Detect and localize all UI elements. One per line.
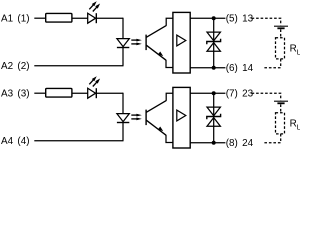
TVS bottom diode bbox=[207, 43, 220, 52]
amplifier triangle bbox=[177, 35, 186, 46]
TVS top diode bbox=[207, 107, 220, 116]
battery short bar bbox=[277, 102, 284, 104]
resistor R1 bbox=[46, 13, 72, 22]
output wire top bbox=[190, 92, 225, 94]
wire A1 to resistor bbox=[34, 17, 45, 19]
output wire bottom bbox=[190, 142, 225, 144]
light arrow 2 bbox=[131, 118, 142, 121]
channel 1 bbox=[1, 1, 301, 74]
battery short bar bbox=[277, 27, 284, 29]
wire A4 bbox=[34, 140, 123, 142]
phototransistor collector wire bbox=[146, 101, 166, 113]
light arrow 1 bbox=[131, 114, 142, 117]
svg-text:RL: RL bbox=[290, 44, 300, 57]
wire down to opto LED bbox=[122, 93, 124, 114]
LED D1 emission arrow 1 bbox=[89, 1, 96, 9]
LED D1 triangle bbox=[88, 13, 96, 23]
svg-text:RL: RL bbox=[290, 119, 300, 132]
LED D2 emission arrow 1 bbox=[89, 76, 96, 84]
output wire top bbox=[190, 17, 225, 19]
resistor R2 bbox=[46, 88, 72, 97]
optocoupler LED triangle bbox=[117, 114, 129, 122]
dashed wire battery to load bbox=[280, 29, 282, 37]
optocoupler LED triangle bbox=[117, 39, 129, 47]
load resistor RL bbox=[276, 113, 285, 134]
output wire bottom bbox=[190, 67, 225, 69]
battery long bar bbox=[274, 100, 288, 102]
junction top bbox=[212, 91, 216, 95]
wire A2 bbox=[34, 65, 123, 67]
channel 2 bbox=[1, 76, 301, 149]
wire resistor to LED bbox=[72, 92, 88, 94]
TVS zener bar bbox=[207, 114, 221, 119]
svg-text:(5) 13: (5) 13 bbox=[226, 13, 254, 24]
wire LED to corner bbox=[96, 17, 123, 19]
junction bottom bbox=[212, 66, 216, 70]
wire down to opto LED bbox=[122, 18, 124, 39]
dashed load wire top bbox=[252, 18, 281, 25]
LED D1 emission arrow 2 bbox=[93, 4, 100, 12]
battery long bar bbox=[274, 25, 288, 27]
phototransistor emitter arrowhead bbox=[158, 52, 163, 57]
LED D2 emission arrow 2 bbox=[93, 79, 100, 87]
wire opto LED down bbox=[122, 123, 124, 141]
svg-text:A4 (4): A4 (4) bbox=[1, 136, 30, 147]
wire resistor to LED bbox=[72, 17, 88, 19]
svg-text:(7) 23: (7) 23 bbox=[226, 88, 254, 99]
amplifier triangle bbox=[177, 110, 186, 121]
light arrow 2 bbox=[131, 43, 142, 46]
svg-text:(6) 14: (6) 14 bbox=[226, 63, 254, 74]
dashed load return wire bbox=[263, 134, 281, 143]
phototransistor emitter arrowhead bbox=[158, 127, 163, 132]
svg-text:A3 (3): A3 (3) bbox=[1, 88, 30, 99]
dashed load wire top bbox=[252, 93, 281, 100]
LED D2 cathode bar bbox=[95, 88, 97, 98]
LED D1 cathode bar bbox=[95, 13, 97, 23]
load resistor RL bbox=[276, 38, 285, 59]
TVS top diode bbox=[207, 32, 220, 41]
junction bottom bbox=[212, 141, 216, 145]
driver box U2 bbox=[173, 87, 190, 148]
TVS bottom diode bbox=[207, 118, 220, 127]
junction top bbox=[212, 16, 216, 20]
phototransistor emitter wire bbox=[146, 45, 166, 60]
optocoupler LED cathode bar bbox=[117, 122, 129, 124]
optocoupler LED cathode bar bbox=[117, 47, 129, 49]
TVS vertical wire bbox=[213, 18, 215, 67]
wire A3 to resistor bbox=[34, 92, 45, 94]
TVS vertical wire bbox=[213, 93, 215, 143]
dashed wire battery to load bbox=[280, 104, 282, 112]
wire opto LED down bbox=[122, 48, 124, 66]
phototransistor emitter wire bbox=[146, 120, 166, 135]
light arrow 1 bbox=[131, 39, 142, 42]
phototransistor base bar bbox=[145, 35, 147, 51]
svg-text:(8) 24: (8) 24 bbox=[226, 138, 254, 149]
svg-text:A2 (2): A2 (2) bbox=[1, 61, 30, 72]
TVS zener bar bbox=[207, 39, 221, 44]
svg-text:A1 (1): A1 (1) bbox=[1, 13, 30, 24]
LED D2 triangle bbox=[88, 88, 96, 98]
dashed load return wire bbox=[263, 59, 281, 68]
phototransistor base bar bbox=[145, 110, 147, 126]
phototransistor collector wire bbox=[146, 26, 166, 38]
driver box U1 bbox=[173, 12, 190, 73]
wire LED to corner bbox=[96, 92, 123, 94]
